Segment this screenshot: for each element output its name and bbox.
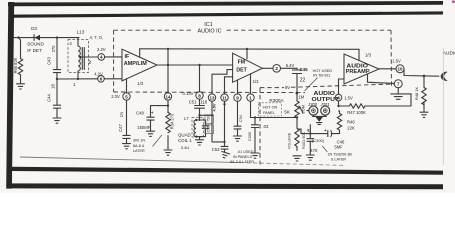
svg-text:22: 22 bbox=[300, 77, 306, 83]
op-amp FM DET bbox=[233, 53, 263, 84]
svg-text:C48: C48 bbox=[136, 110, 144, 115]
ground R66 bbox=[17, 84, 25, 89]
svg-text:VOLUME: VOLUME bbox=[287, 132, 292, 149]
label audio out clipped bbox=[443, 51, 455, 57]
svg-text:300 1N: 300 1N bbox=[133, 139, 145, 143]
svg-text:IF DET: IF DET bbox=[27, 48, 42, 53]
quad coil L7 box bbox=[184, 116, 204, 137]
svg-text:7: 7 bbox=[397, 82, 400, 87]
capacitor C300 470 bracket bbox=[307, 134, 324, 155]
svg-text:PANEL: PANEL bbox=[263, 111, 275, 115]
svg-text:1N: 1N bbox=[119, 112, 124, 117]
svg-text:8: 8 bbox=[198, 93, 201, 98]
svg-text:C44: C44 bbox=[46, 93, 51, 101]
wire pin4 to IF amp bbox=[105, 56, 122, 58]
capacitor C300 .03 bbox=[247, 118, 269, 153]
wire pin9 lower bbox=[238, 101, 244, 125]
svg-text:.01 USED: .01 USED bbox=[237, 150, 254, 154]
svg-text:4.2V: 4.2V bbox=[94, 71, 103, 76]
svg-text:R66 82K: R66 82K bbox=[13, 57, 18, 73]
svg-text:1/3: 1/3 bbox=[365, 52, 372, 57]
wire pin6 to IF amp bbox=[104, 78, 122, 80]
diode D3 bbox=[31, 26, 40, 41]
border bottom frame bar bbox=[7, 183, 444, 189]
note C48 later bbox=[133, 135, 162, 153]
transformer L13 box bbox=[68, 30, 89, 73]
svg-text:1: 1 bbox=[73, 82, 76, 87]
svg-text:LATER: LATER bbox=[133, 149, 145, 153]
svg-text:5: 5 bbox=[125, 94, 128, 99]
node C43 tap bbox=[56, 36, 58, 38]
svg-text:R48 1K: R48 1K bbox=[414, 86, 419, 100]
wiper arrow R300A bbox=[299, 105, 304, 112]
ground C300 470 bbox=[306, 155, 314, 160]
svg-text:R47 100K: R47 100K bbox=[347, 110, 366, 115]
ground C44 bbox=[53, 118, 61, 123]
IC pin 13 bbox=[208, 94, 215, 101]
wire pin1 stub bbox=[250, 74, 252, 94]
svg-text:R46: R46 bbox=[347, 119, 355, 124]
border bottom thick rule bbox=[12, 169, 443, 173]
note panels 8A-2 bbox=[230, 150, 254, 164]
svg-text:.03: .03 bbox=[262, 124, 268, 129]
panel boundary dashed vertical bbox=[259, 88, 261, 165]
label 1M bbox=[298, 94, 304, 99]
svg-text:8,: 8, bbox=[307, 129, 310, 133]
svg-text:6: 6 bbox=[100, 77, 103, 82]
node coil bottom bbox=[77, 78, 79, 80]
ground R34 bbox=[164, 150, 172, 155]
IC pin 10 bbox=[379, 59, 404, 73]
svg-text:8A-2 & LATER: 8A-2 & LATER bbox=[230, 160, 254, 164]
svg-text:1.5V: 1.5V bbox=[344, 95, 353, 100]
ground R301 bbox=[293, 156, 301, 161]
ground C300 bbox=[251, 153, 259, 158]
svg-text:4: 4 bbox=[100, 55, 103, 60]
svg-text:A, T, O,: A, T, O, bbox=[90, 35, 104, 40]
capacitor C45 22 bbox=[292, 67, 308, 101]
ground pin7 bbox=[391, 88, 411, 100]
wire pin14 vertical bbox=[167, 49, 169, 93]
svg-text:C54: C54 bbox=[238, 114, 243, 122]
capacitor C53 bbox=[212, 146, 228, 152]
svg-text:1.5V: 1.5V bbox=[392, 59, 401, 64]
capacitor C50 750 bbox=[202, 120, 208, 137]
node C51 quad bbox=[198, 114, 212, 116]
wire FM det output bbox=[262, 67, 273, 69]
label COM bbox=[301, 105, 305, 114]
svg-text:+: + bbox=[151, 111, 154, 117]
capacitor C46 5MF bbox=[324, 128, 345, 149]
svg-text:11: 11 bbox=[222, 96, 227, 101]
svg-text:IF: IF bbox=[125, 54, 131, 60]
svg-text:18: 18 bbox=[51, 84, 56, 89]
svg-text:PREAMP: PREAMP bbox=[346, 69, 370, 75]
jack J301 bbox=[321, 106, 330, 115]
svg-text:L13: L13 bbox=[77, 30, 85, 35]
svg-text:1M: 1M bbox=[298, 94, 304, 99]
svg-text:13: 13 bbox=[210, 96, 215, 101]
wire pin13 lower bbox=[211, 101, 217, 142]
svg-text:AMP/LIM: AMP/LIM bbox=[124, 61, 147, 67]
svg-text:R34 270: R34 270 bbox=[169, 113, 174, 129]
capacitor C44 18 bbox=[46, 79, 60, 118]
label quad coil bbox=[178, 133, 192, 151]
IC pin 2 bbox=[273, 63, 295, 72]
svg-text:4.5V: 4.5V bbox=[211, 103, 216, 111]
resistor R34 270 bbox=[166, 112, 175, 149]
svg-text:1/3: 1/3 bbox=[137, 81, 144, 86]
IC pin 8 bbox=[183, 65, 204, 99]
wire top rail bbox=[140, 49, 359, 61]
label sound if det bbox=[27, 42, 44, 53]
wire L13 secondary bottom bbox=[57, 78, 98, 80]
supply 9V dashed bbox=[260, 84, 394, 90]
resistor R48 1K bbox=[414, 76, 426, 112]
wire pin13 to FM det bbox=[212, 70, 233, 94]
svg-text:C43: C43 bbox=[46, 56, 51, 64]
wire pin9 stub bbox=[237, 80, 239, 94]
resistor R301 50K volume bbox=[287, 118, 306, 151]
ground C48 bbox=[147, 131, 155, 136]
IC1 label bbox=[198, 22, 222, 34]
node rail pin14 bbox=[167, 48, 169, 50]
connector audio out bbox=[441, 72, 446, 80]
svg-text:+: + bbox=[324, 128, 327, 134]
capacitor C50 bracket label bbox=[205, 125, 214, 134]
wire pin4 to preamp input bbox=[339, 79, 345, 94]
svg-text:8A-8 &: 8A-8 & bbox=[133, 144, 145, 148]
note not used TB-921 bbox=[305, 69, 333, 91]
capacitor C47 bbox=[118, 100, 130, 143]
pin label 1 L13 bbox=[73, 82, 76, 87]
op-amp IF AMP/LIM bbox=[122, 49, 157, 86]
svg-text:10: 10 bbox=[398, 67, 403, 72]
svg-text:9V: 9V bbox=[285, 85, 290, 90]
wire pin11 to FM det bbox=[225, 77, 233, 94]
capacitor C48 150MF bbox=[136, 106, 154, 131]
svg-text:4: 4 bbox=[69, 41, 72, 46]
svg-text:4: 4 bbox=[337, 95, 340, 100]
svg-text:470: 470 bbox=[310, 148, 318, 153]
svg-text:[C300]: [C300] bbox=[312, 138, 323, 143]
svg-text:1N TS9200-3B: 1N TS9200-3B bbox=[328, 153, 353, 157]
border top bar bbox=[8, 3, 443, 5]
svg-text:1/3: 1/3 bbox=[253, 79, 260, 84]
svg-text:L7: L7 bbox=[184, 116, 189, 121]
capacitor C43 270 bbox=[46, 38, 60, 79]
svg-text:270: 270 bbox=[51, 45, 56, 53]
IC pin 7 bbox=[394, 80, 402, 88]
wire output bus bbox=[298, 129, 340, 134]
svg-text:22K: 22K bbox=[347, 125, 355, 130]
node IF out pin8 bbox=[198, 64, 200, 66]
wire pin10 output bbox=[404, 69, 439, 77]
IC pin 1 bbox=[247, 94, 254, 101]
jack J300 bbox=[307, 106, 318, 115]
ground C53 bbox=[220, 151, 229, 158]
IC1 boundary bottom dashed bbox=[114, 91, 305, 94]
capacitor C50 750 bracket bbox=[205, 115, 214, 124]
ground C54 bbox=[234, 136, 242, 141]
wire preamp to pin7 bbox=[368, 74, 395, 83]
svg-text:C50: C50 bbox=[207, 126, 211, 132]
svg-text:COIL 1: COIL 1 bbox=[178, 138, 192, 143]
svg-text:C51: C51 bbox=[189, 99, 197, 104]
alignment label A T O bbox=[90, 35, 104, 40]
svg-text:C45: C45 bbox=[299, 67, 308, 72]
svg-text:DET: DET bbox=[236, 68, 247, 74]
wire pin1 lower to volume bbox=[251, 101, 299, 118]
op-amp AUDIO PREAMP bbox=[344, 52, 379, 84]
svg-text:6.4V: 6.4V bbox=[286, 63, 295, 68]
svg-text:IN TB-921: IN TB-921 bbox=[313, 74, 330, 78]
svg-text:HOT ON: HOT ON bbox=[263, 106, 278, 110]
resistor R66 82K bbox=[13, 38, 23, 84]
svg-text:5MF: 5MF bbox=[334, 145, 343, 150]
node IF out pin14 bbox=[167, 64, 169, 66]
IC pin 14 bbox=[164, 93, 171, 100]
svg-text:2: 2 bbox=[89, 60, 92, 65]
IC1 boundary right dashed bbox=[390, 30, 393, 88]
border left bar bbox=[6, 2, 14, 189]
label audio output bbox=[307, 91, 340, 107]
resistor R47 100K bbox=[339, 94, 412, 115]
ground C47 bbox=[123, 144, 131, 149]
node input junction bbox=[17, 36, 19, 38]
resistor R46 22K bbox=[337, 111, 355, 134]
wire pin2 to C45 bbox=[281, 67, 298, 69]
coil L7 winding bbox=[194, 115, 206, 137]
wire pin11 lower bbox=[212, 101, 226, 146]
IC pin 4 preamp bbox=[335, 94, 353, 101]
svg-text:FM: FM bbox=[238, 59, 246, 65]
IC pin 9 bbox=[234, 94, 241, 101]
coil L13 winding bbox=[78, 38, 84, 79]
capacitor C51 bbox=[189, 99, 208, 120]
svg-text:14: 14 bbox=[166, 94, 171, 99]
border bottom thin rule bbox=[20, 157, 345, 165]
svg-text:SOUND: SOUND bbox=[27, 42, 44, 47]
svg-text:2.3V: 2.3V bbox=[111, 94, 120, 99]
svg-text:R300A: R300A bbox=[269, 98, 284, 103]
svg-text:HOT USED: HOT USED bbox=[313, 69, 333, 73]
svg-text:750: 750 bbox=[207, 116, 211, 122]
svg-text:AUDIO IC: AUDIO IC bbox=[198, 28, 222, 34]
note hot on panel bbox=[258, 103, 281, 116]
ground jacks bbox=[312, 115, 326, 124]
wire pin14 lower bbox=[151, 100, 170, 112]
svg-text:IN PANELS.: IN PANELS. bbox=[233, 155, 253, 159]
svg-text:C47: C47 bbox=[118, 123, 123, 131]
pin label 4 L13 bbox=[69, 41, 72, 46]
svg-text:IC1: IC1 bbox=[204, 22, 212, 28]
svg-text:C300: C300 bbox=[247, 131, 252, 141]
svg-text:COM: COM bbox=[301, 105, 305, 114]
svg-text:2.2V: 2.2V bbox=[97, 47, 106, 52]
IC pin 6 bbox=[94, 71, 104, 82]
border inner top rule bbox=[11, 13, 443, 16]
potentiometer R300A 5K bbox=[269, 98, 299, 119]
note TS9200 bbox=[322, 146, 352, 162]
svg-text:& LATER: & LATER bbox=[331, 158, 346, 162]
node rail FM det bbox=[246, 48, 248, 50]
scan artifact dot bbox=[452, 0, 455, 3]
IC1 boundary top dashed bbox=[114, 29, 391, 31]
IC pin 5 bbox=[111, 79, 130, 100]
svg-text:118: 118 bbox=[200, 99, 207, 104]
node L13 bottom rail bbox=[56, 78, 58, 80]
IC pin 11 bbox=[221, 94, 228, 101]
wire jacks to output bus bbox=[309, 125, 311, 134]
ground R48 bbox=[420, 112, 428, 117]
svg-text:9: 9 bbox=[236, 96, 239, 101]
IC pin 4 bbox=[97, 47, 106, 60]
ground quad coil bbox=[196, 137, 204, 145]
capacitor C54 bbox=[234, 126, 241, 135]
svg-text:AUDIO: AUDIO bbox=[443, 51, 455, 57]
svg-text:D3: D3 bbox=[31, 26, 37, 31]
svg-text:3.4U: 3.4U bbox=[181, 145, 190, 150]
svg-text:150MF: 150MF bbox=[137, 125, 150, 130]
node output bus jack bbox=[307, 129, 311, 135]
IC1 boundary left dashed bbox=[113, 30, 115, 92]
wire IF amp output bbox=[157, 64, 233, 66]
fold line right bbox=[442, 48, 444, 165]
svg-text:5K: 5K bbox=[284, 110, 291, 115]
wire L13 tap to pin4 bbox=[79, 56, 98, 65]
svg-text:C53: C53 bbox=[212, 147, 220, 152]
svg-text:2: 2 bbox=[275, 66, 278, 71]
svg-text:0.14V: 0.14V bbox=[183, 91, 194, 96]
wire pin4 node bbox=[337, 101, 339, 107]
wire sound IF det input bbox=[14, 37, 79, 39]
svg-text:1: 1 bbox=[249, 96, 252, 101]
